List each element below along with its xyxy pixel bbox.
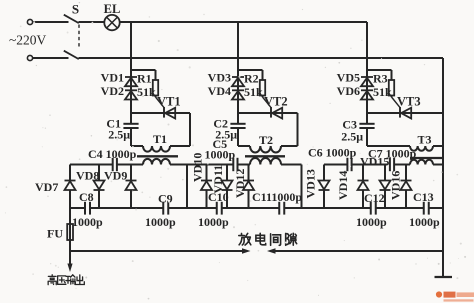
svg-text:R1: R1 [137,72,152,86]
svg-text:T1: T1 [153,132,167,146]
svg-text:VT3: VT3 [397,95,421,109]
svg-text:S: S [72,2,79,17]
svg-text:VD9: VD9 [104,169,127,183]
svg-text:1000p: 1000p [205,148,236,162]
svg-text:VD4: VD4 [208,84,231,98]
svg-text:VD15: VD15 [360,155,389,169]
svg-text:2.5μ: 2.5μ [341,130,363,144]
svg-text:1000p: 1000p [145,215,176,229]
svg-text:R2: R2 [244,72,259,86]
svg-text:VD5: VD5 [337,71,360,85]
svg-text:VD16: VD16 [389,171,403,200]
svg-text:T3: T3 [418,133,432,147]
svg-text:VD10: VD10 [191,153,205,182]
svg-text:VD11: VD11 [211,165,225,194]
svg-text:1000p: 1000p [72,215,103,229]
svg-text:VD3: VD3 [208,71,231,85]
svg-text:VT1: VT1 [157,95,181,109]
svg-text:51k: 51k [137,85,156,99]
svg-text:2.5μ: 2.5μ [108,128,130,142]
svg-text:T2: T2 [259,133,273,147]
svg-text:VT2: VT2 [264,95,288,109]
svg-text:C8: C8 [79,190,94,204]
svg-text:~220V: ~220V [9,33,47,48]
svg-text:51k: 51k [373,85,392,99]
svg-text:1000p: 1000p [356,215,387,229]
svg-text:C12: C12 [364,191,385,205]
svg-text:VD6: VD6 [337,84,360,98]
svg-text:FU: FU [47,227,63,241]
svg-text:C6 1000p: C6 1000p [308,146,357,160]
svg-text:EL: EL [104,2,121,16]
svg-text:VD2: VD2 [101,84,124,98]
svg-text:VD1: VD1 [101,71,124,85]
svg-text:VD13: VD13 [304,169,318,198]
svg-text:C111000p: C111000p [252,190,302,204]
svg-text:51k: 51k [244,85,263,99]
svg-text:VD14: VD14 [336,171,350,200]
svg-text:1000p: 1000p [409,215,440,229]
svg-text:R3: R3 [373,72,388,86]
svg-text:1000p: 1000p [198,215,229,229]
svg-text:VD7: VD7 [35,180,58,194]
svg-text:C4 1000p: C4 1000p [88,147,137,161]
svg-text:VD12: VD12 [233,169,247,198]
svg-text:C9: C9 [158,192,173,206]
svg-text:VD8: VD8 [76,169,99,183]
svg-text:C13: C13 [413,190,434,204]
